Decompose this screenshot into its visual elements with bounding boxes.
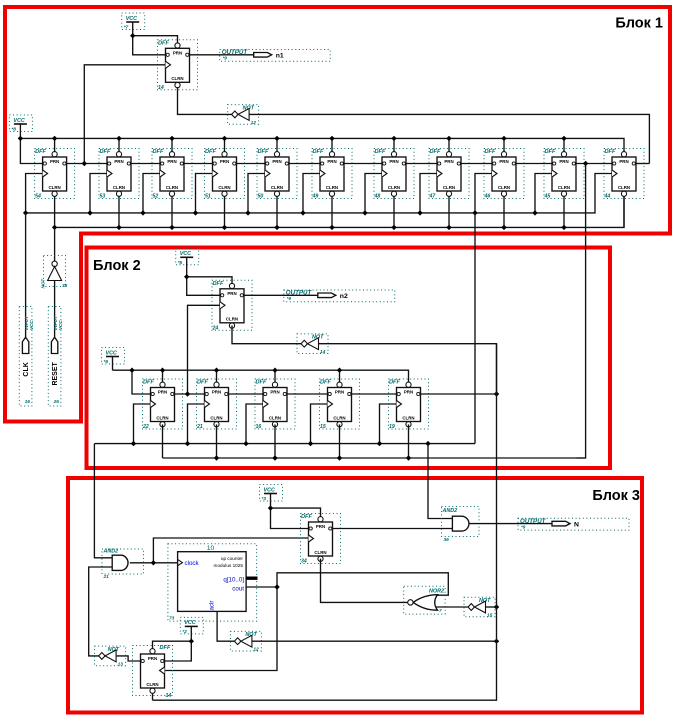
junction VCC P5 node [268, 505, 273, 510]
svg-text:52: 52 [153, 194, 159, 200]
svg-text:*5: *5 [178, 260, 183, 266]
svg-text:PRN: PRN [220, 159, 229, 164]
D flip-flop S10 (Блок 1 shift register stage 10, inst 45) [544, 149, 585, 200]
D flip-flop RA (Блок 2 counter stage, inst 22) [142, 379, 183, 430]
wire: counter aclr to NOT G6 output [217, 611, 234, 641]
wire: DFF T2 clock tap from row A Q0 net [188, 305, 221, 394]
wire: net QE vertical down to DFF T4 CLRN rail [153, 344, 497, 701]
svg-text:PRN: PRN [335, 390, 344, 395]
block border: Блок 3 (red rectangle) [68, 478, 642, 713]
AND gate G4 (2-input, clock gate), inst 21 [102, 549, 144, 581]
svg-text:PRN: PRN [227, 291, 236, 296]
svg-text:DFF: DFF [375, 149, 386, 155]
svg-text:13: 13 [118, 661, 124, 667]
wire: Блок 2 row clock rail (CLK net) [94, 443, 475, 445]
inverter G1 (drives T1 CLRN), inst 12 [228, 105, 259, 126]
wire: CLRN lead of row stage A [162, 424, 164, 458]
wire: CLRN lead of row stage D [339, 424, 341, 458]
svg-text:CLRN: CLRN [269, 415, 281, 420]
junction row CLRN rail D [337, 455, 342, 460]
svg-text:PRN: PRN [619, 159, 628, 164]
wire: row QA to DB [175, 393, 205, 395]
power VCC P4 (Блок 2 row) [102, 348, 125, 366]
wire: Q of stage 11 to riser toward NOT G1 [636, 163, 649, 165]
svg-text:PRN: PRN [499, 159, 508, 164]
wire: clock lead of stage 2 [90, 174, 107, 213]
svg-text:DFF: DFF [158, 40, 169, 46]
svg-text:VCC: VCC [106, 350, 117, 356]
svg-text:NOR2: NOR2 [429, 589, 444, 595]
wire: DFF T2 CLRN to NOT G3 output [232, 325, 301, 343]
wire: VCC P5 stem [270, 494, 272, 509]
junction CLRN rail stage 4 [222, 225, 227, 230]
svg-text:VCC: VCC [13, 118, 24, 124]
wire: PRN rail stub to stage 8 [448, 138, 450, 151]
wire: PRN rail stub to row stage A [162, 370, 164, 382]
wire: VCC P6 node to PRN of DFF T4 [153, 641, 192, 648]
wire: CLRN lead of row stage B [216, 424, 218, 458]
wire: CLRN lead of stage 8 [448, 197, 450, 228]
junction VCC rail / D drop A [129, 368, 134, 373]
wire: VCC rail drop to D of row stage A [132, 370, 151, 394]
svg-text:AND2: AND2 [103, 549, 119, 555]
wire: clock lead of stage 3 [143, 174, 160, 213]
wire: CLRN lead of stage 1 [54, 197, 56, 228]
wire: VCC P4 stem to row PRN rail [112, 357, 114, 371]
junction CLRN rail stage 8 [446, 225, 451, 230]
junction PRN rail stage 1 [52, 136, 57, 141]
svg-text:n2: n2 [340, 293, 348, 300]
power VCC P5 (Блок 3 top) [260, 485, 283, 503]
svg-text:PRN: PRN [389, 159, 398, 164]
svg-text:47: 47 [429, 194, 437, 200]
input pin CLK [19, 307, 34, 407]
wire: Q of stage 10 to D of stage 11 (net Q9) [576, 163, 612, 165]
junction at VCC P1 node [130, 33, 135, 38]
wire: DFF T1 Q to output pin n1 [190, 54, 254, 56]
svg-text:CLRN: CLRN [388, 185, 400, 190]
svg-text:15: 15 [320, 424, 326, 430]
wire: CLRN lead of row stage C [274, 424, 276, 458]
svg-text:CLRN: CLRN [402, 415, 414, 420]
wire: clock lead of row stage E [380, 404, 397, 444]
svg-text:*7: *7 [124, 25, 129, 31]
wire: VCC P3 node to D of DFF T2 [187, 277, 220, 296]
junction: net QE joins vertical to Блок 3 [494, 391, 499, 396]
svg-text:DFF: DFF [153, 149, 164, 155]
svg-text:19: 19 [389, 424, 395, 430]
svg-text:CLRN: CLRN [166, 185, 178, 190]
input pin RESET [48, 307, 63, 407]
D flip-flop S4 (Блок 1 shift register stage 4, inst 51) [205, 149, 245, 200]
wire: clock lead of stage 8 [420, 174, 437, 213]
wire: clock lead of row stage B [188, 404, 205, 444]
junction PRN rail stage 5 [274, 136, 279, 141]
inverter G9 (feeds NOR G8), inst 15 [464, 597, 495, 618]
wire: counter cout to node [246, 586, 277, 588]
svg-text:PRN: PRN [167, 159, 176, 164]
wire: DFF T1 clock from tap on Q0 net [84, 65, 165, 164]
svg-text:PRN: PRN [444, 159, 453, 164]
svg-text:CLRN: CLRN [226, 317, 238, 322]
junction clock rail stage 7 [362, 210, 367, 215]
wire: clock lead of row stage C [246, 404, 263, 444]
junction VCC P6 node [189, 639, 194, 644]
wire: clock rail left drop to Блок 3 AND G4 input [94, 444, 112, 558]
svg-text:24: 24 [212, 325, 219, 331]
svg-text:NOT: NOT [41, 278, 46, 289]
wire: CLRN lead of stage 7 [393, 197, 395, 228]
junction row clock rail E [377, 441, 382, 446]
wire: PRN rail stub to row stage C [274, 370, 276, 382]
power VCC P2 (left, feeds PRN rail and D of stage 1) [9, 115, 32, 133]
svg-text:7: 7 [439, 608, 442, 614]
junction CLRN rail stage 10 [561, 225, 566, 230]
svg-text:DFF: DFF [485, 149, 496, 155]
svg-text:up counter: up counter [221, 556, 244, 561]
junction CLRN rail stage 5 [274, 225, 279, 230]
wire: row QC to DD [287, 393, 328, 395]
wire: CLRN lead of stage 11 [623, 197, 625, 228]
svg-text:DFF: DFF [320, 380, 331, 386]
junction PRN rail stage 6 [329, 136, 334, 141]
output pin n2 [284, 290, 395, 302]
D flip-flop S9 (Блок 1 shift register stage 9, inst 46) [484, 149, 525, 200]
wire: CLRN lead of stage 4 [224, 197, 226, 228]
bus stub: q[10..0] (thick) [246, 577, 257, 580]
svg-text:DFF: DFF [213, 281, 224, 287]
junction clock rail stage 8 [417, 210, 422, 215]
svg-text:N: N [574, 521, 579, 528]
junction PRN rail stage 9 [501, 136, 506, 141]
wire: Q of stage 6 to D of stage 7 (net Q5) [344, 163, 382, 165]
svg-text:12: 12 [251, 120, 257, 126]
wire: Q of stage 8 to D of stage 9 (net Q7) [461, 163, 492, 165]
wire: DFF T4 CLRN down to bottom rail [152, 694, 154, 700]
wire: CLK rail (clock bus) of Блок 1 [26, 174, 612, 213]
wire: AND G7 output to output pin N [470, 523, 553, 525]
wire: NOT G3 input from net QE (last stage Q of Блок 2) [319, 344, 497, 394]
power VCC P6 (Блок 3 bottom) [180, 617, 203, 635]
svg-text:DFF: DFF [35, 149, 46, 155]
junction: tap of row net QA up to DFF T2 clock [185, 391, 190, 396]
svg-text:CLRN: CLRN [271, 185, 283, 190]
wire: PRN rail stub to stage 5 [276, 138, 278, 151]
svg-text:DFF: DFF [389, 380, 400, 386]
junction CLRN rail stage 9 [501, 225, 506, 230]
wire: PRN rail stub to stage 4 [224, 138, 226, 151]
svg-text:PRN: PRN [173, 51, 182, 56]
wire: PRN rail stub to stage 6 [331, 138, 333, 151]
junction VCC P2 / D drop [18, 136, 23, 141]
junction row clock rail A [131, 441, 136, 446]
svg-text:DFF: DFF [258, 149, 269, 155]
D flip-flop S11 (Блок 1 shift register stage 11, inst 44) [604, 149, 645, 200]
wire: VCC P2 stem to PRN rail [19, 124, 21, 138]
wire: clock lead of stage 4 [196, 174, 213, 213]
wire: clock lead of stage 1 [26, 174, 43, 213]
D flip-flop T2 (Блок 2 output divider, inst 24) [212, 280, 253, 331]
junction AND G4 output node [151, 560, 156, 565]
wire: clock rail drop to Блок 2 row clock rail (via stage-9 tap) [474, 213, 476, 444]
svg-text:73: 73 [169, 616, 175, 622]
svg-text:CLRN: CLRN [333, 415, 345, 420]
svg-text:PRN: PRN [148, 656, 157, 661]
wire: AND G4 output up to DFF T3 clock [153, 538, 308, 563]
junction VCC P3 node [184, 274, 189, 279]
svg-text:15: 15 [487, 613, 493, 619]
wire: DFF T3 Q to AND G7 input 2 [333, 528, 453, 530]
wire: clock lead of stage 5 [248, 174, 265, 213]
wire: Q of stage 7 to D of stage 8 (net Q6) [406, 163, 437, 165]
wire: PRN rail stub to stage 7 [393, 138, 395, 151]
svg-text:*3: *3 [262, 496, 267, 502]
junction: row clock rail tap down to AND G7 in Блок 3 [425, 441, 430, 446]
junction clock rail stage 5 [245, 210, 250, 215]
D flip-flop T1 (Блок 1 divider stage, inst 14) [158, 40, 198, 91]
wire: row QB to DC [229, 393, 264, 395]
junction cout node [274, 584, 279, 589]
wire: VCC P3 node to PRN of DFF T2 [187, 277, 232, 284]
svg-text:CLRN: CLRN [314, 550, 326, 555]
svg-text:48: 48 [374, 194, 381, 200]
svg-text:34: 34 [301, 559, 307, 565]
wire: VCC node down to D input of stage 1 [20, 138, 42, 163]
D flip-flop S7 (Блок 1 shift register stage 7, inst 48) [374, 149, 415, 200]
svg-text:DFF: DFF [545, 149, 556, 155]
D flip-flop S1 (Блок 1 shift register stage 1, inst 54) [35, 149, 75, 200]
output pin N [518, 518, 629, 530]
svg-text:PRN: PRN [559, 159, 568, 164]
wire: VCC P5 node to PRN of DFF T3 [271, 508, 321, 516]
wire: CLK input pin riser [25, 213, 27, 337]
D flip-flop RC (Блок 2 counter stage, inst 16) [255, 379, 295, 430]
svg-text:modulus 1025: modulus 1025 [214, 563, 244, 568]
svg-text:PRN: PRN [404, 390, 413, 395]
svg-text:16: 16 [256, 424, 262, 430]
svg-text:26: 26 [53, 399, 60, 405]
svg-text:CLRN: CLRN [218, 185, 230, 190]
wire: Q of stage 5 to D of stage 6 (net Q4) [289, 163, 320, 165]
wire: VCC P5 node to D of DFF T3 [271, 508, 309, 528]
wire: clock rail drop to Блок 3 AND G7 input [428, 444, 452, 519]
wire: DFF T1 CLRN down to NOT G1 output [178, 88, 232, 115]
svg-text:PRN: PRN [272, 159, 281, 164]
wire: CLRN rail down to reset inverter G2 output [54, 227, 56, 261]
junction PRN rail stage 3 [169, 136, 174, 141]
svg-text:DFF: DFF [100, 149, 111, 155]
wire: PRN rail stub to stage 1 [54, 138, 56, 151]
svg-text:DFF: DFF [197, 380, 208, 386]
D flip-flop RD (Блок 2 counter stage, inst 15) [320, 379, 360, 430]
junction PRN rail stage 10 [561, 136, 566, 141]
svg-text:*6: *6 [104, 359, 109, 365]
svg-text:CLRN: CLRN [618, 185, 630, 190]
block border: Блок 2 (red rectangle) [87, 248, 611, 469]
wire: PRN rail stub to stage 2 [118, 138, 120, 151]
svg-text:Блок 1: Блок 1 [615, 16, 663, 32]
power VCC P3 (Блок 2 top) [176, 248, 199, 265]
wire: PRN rail stub to stage 10 [563, 138, 565, 151]
svg-text:46: 46 [484, 194, 491, 200]
junction: tap of net Q9 down to Блок 2 CLRN rail [583, 161, 588, 166]
svg-text:RESET: RESET [52, 361, 59, 385]
svg-text:54: 54 [35, 194, 41, 200]
wire: clock lead of stage 10 [535, 174, 552, 213]
wire: clock lead of stage 6 [303, 174, 320, 213]
junction net QE at NOT G6 input wire [494, 639, 499, 644]
svg-text:DFF: DFF [605, 149, 616, 155]
wire: node to PRN of DFF T1 [133, 36, 178, 43]
svg-text:DFF: DFF [143, 380, 154, 386]
svg-text:DFF: DFF [256, 380, 267, 386]
wire: DFF T3 CLRN to NOR G8 output [321, 559, 414, 603]
junction row clock rail B [185, 441, 190, 446]
D flip-flop S6 (Блок 1 shift register stage 6, inst 49) [312, 149, 353, 200]
AND gate G7 (2-input output gate), inst 36 [442, 507, 480, 544]
counter U1 (lpm up counter modulus 1025), inst 73 [168, 544, 257, 622]
inverter G3 (drives T2 CLRN), inst 14 [297, 334, 328, 355]
D flip-flop S8 (Блок 1 shift register stage 8, inst 47) [429, 149, 470, 200]
D flip-flop S3 (Блок 1 shift register stage 3, inst 52) [152, 149, 192, 200]
svg-text:cout: cout [232, 585, 244, 592]
junction CLRN rail stage 3 [169, 225, 174, 230]
junction PRN rail row stage B [214, 368, 219, 373]
wire: PRN rail stub to row stage B [216, 370, 218, 382]
svg-text:DFF: DFF [205, 149, 216, 155]
wire: CLRN lead of stage 2 [118, 197, 120, 228]
svg-text:CLRN: CLRN [146, 682, 158, 687]
wire: Q of stage 3 to D of stage 4 (net Q2) [184, 163, 213, 165]
svg-text:PRN: PRN [316, 524, 325, 529]
svg-text:DFF: DFF [313, 149, 324, 155]
wire: cout node up and over to NOR G8 input 1 [277, 573, 448, 595]
wire: NOT G6 input from net QE vertical [252, 640, 497, 642]
svg-text:VCC: VCC [126, 16, 137, 22]
wire: PRN rail stub to row stage D [339, 370, 341, 382]
svg-text:AND2: AND2 [442, 508, 458, 514]
wire: PRN rail stub to stage 9 [503, 138, 505, 151]
wire: cout node down to DFF T4 clock (mirrored) [165, 587, 278, 671]
svg-text:76: 76 [62, 283, 68, 289]
wire: Блок 2 row CLRN rail [163, 457, 586, 459]
D flip-flop S5 (Блок 1 shift register stage 5, inst 50) [257, 149, 297, 200]
svg-text:Блок 2: Блок 2 [93, 258, 141, 274]
wire: clock lead of row stage A [134, 404, 151, 444]
svg-text:*2: *2 [182, 629, 187, 635]
wire: VCC P1 stem down to node [132, 22, 134, 36]
wire: net Q9 drop to Блок 2 CLRN rail [577, 164, 586, 459]
wire: CLRN lead of stage 5 [276, 197, 278, 228]
junction PRN rail row stage C [272, 368, 277, 373]
svg-text:CLRN: CLRN [326, 185, 338, 190]
junction clock rail stage 4 [193, 210, 198, 215]
svg-text:PRN: PRN [270, 390, 279, 395]
wire: Q of stage 1 to D of stage 2 (net Q0) [67, 163, 107, 165]
junction PRN rail stage 8 [446, 136, 451, 141]
junction clock rail stage 1 / CLK pin riser [23, 210, 28, 215]
junction row CLRN rail C [272, 455, 277, 460]
svg-text:VCC: VCC [180, 251, 191, 257]
svg-text:53: 53 [100, 194, 106, 200]
svg-text:*9: *9 [287, 296, 292, 301]
power VCC P1 (top, feeds DFF T1 PRN and D) [122, 13, 145, 31]
D flip-flop RE (Блок 2 counter stage, inst 19) [389, 379, 429, 430]
junction CLRN rail stage 2 [116, 225, 121, 230]
wire: DFF T2 Q to output pin n2 [244, 294, 318, 296]
wire: row QD to DE [352, 393, 397, 395]
wire: Q of stage 4 to D of stage 5 (net Q3) [237, 163, 266, 165]
wire: NOT G9 input from net QE vertical [486, 606, 497, 608]
junction row clock rail C [243, 441, 248, 446]
junction PRN rail row stage D [337, 368, 342, 373]
wire: RESET pin to inverter G2 input [54, 281, 56, 338]
svg-text:PRN: PRN [114, 159, 123, 164]
svg-text:CLK: CLK [23, 362, 30, 376]
svg-text:PRN: PRN [158, 390, 167, 395]
svg-text:n1: n1 [276, 53, 284, 60]
junction CLRN rail stage 7 [391, 225, 396, 230]
svg-text:DFF: DFF [430, 149, 441, 155]
junction PRN rail row stage A [160, 368, 165, 373]
svg-text:CLRN: CLRN [156, 415, 168, 420]
wire: Блок 2 PRN rail (VCC) [113, 370, 409, 382]
junction clock rail stage 9 [472, 210, 477, 215]
svg-text:50: 50 [258, 194, 264, 200]
svg-text:21: 21 [196, 424, 203, 430]
wire: DFF T4 Q (left) to NOT G5 input [116, 656, 140, 661]
inverter G5 (T4 Q to AND G4), inst 13 [95, 646, 126, 667]
svg-text:49: 49 [312, 194, 319, 200]
svg-text:aclr: aclr [209, 601, 216, 611]
svg-text:44: 44 [604, 194, 611, 200]
wire: CLRN lead of stage 9 [503, 197, 505, 228]
svg-text:VCC: VCC [264, 487, 275, 493]
junction CLRN rail stage 6 [329, 225, 334, 230]
junction CLRN rail stage 1 [52, 225, 57, 230]
junction row CLRN rail B [214, 455, 219, 460]
wire: PRN rail (VCC) across Блок 1 register row [20, 138, 624, 151]
D flip-flop S2 (Блок 1 shift register stage 2, inst 53) [99, 149, 139, 200]
svg-text:14: 14 [166, 693, 172, 699]
junction PRN rail stage 4 [222, 136, 227, 141]
wire: CLRN lead of stage 10 [563, 197, 565, 228]
svg-text:CLRN: CLRN [171, 76, 183, 81]
NOR gate G8 (2-input, mirrored), inst 7 [404, 586, 445, 614]
D flip-flop T3 (Блок 3 divider, inst 34) [301, 514, 341, 565]
inverter G2 on RESET (points up) [41, 256, 68, 290]
junction row clock rail D [308, 441, 313, 446]
svg-text:*9: *9 [521, 524, 526, 529]
output pin n1 [220, 49, 331, 61]
svg-text:clock: clock [185, 560, 200, 567]
wire: CLRN lead of stage 6 [331, 197, 333, 228]
wire: NOR G8 input 2 from NOT G9 output [436, 606, 468, 608]
svg-text:16: 16 [25, 399, 31, 405]
svg-text:VCC: VCC [184, 620, 195, 626]
junction: tap of net Q0 to DFF T1 clock [82, 161, 87, 166]
svg-text:14: 14 [320, 349, 326, 355]
junction net QE at NOT G9 input [494, 604, 499, 609]
wire: CLRN rail of Блок 1 (reset net) [55, 197, 624, 228]
svg-text:PRN: PRN [212, 390, 221, 395]
svg-text:VCC: VCC [58, 320, 63, 330]
wire: AND G4 output node [130, 562, 178, 564]
wire: AND G4 lower input from NOT G5 output [89, 567, 113, 656]
svg-text:CLRN: CLRN [498, 185, 510, 190]
wire: Q of stage 9 to D of stage 10 (net Q8) [516, 163, 552, 165]
svg-text:21: 21 [103, 574, 110, 580]
